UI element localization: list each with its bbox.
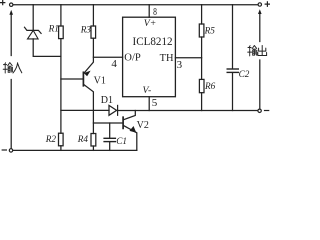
svg-text:C2: C2 bbox=[239, 69, 250, 79]
svg-text:4: 4 bbox=[111, 58, 117, 70]
svg-text:V2: V2 bbox=[137, 120, 149, 131]
svg-text:R6: R6 bbox=[204, 81, 216, 91]
svg-text:O/P: O/P bbox=[124, 53, 141, 64]
svg-text:V1: V1 bbox=[94, 76, 106, 87]
svg-text:ICL8212: ICL8212 bbox=[133, 36, 173, 48]
svg-text:V-: V- bbox=[143, 85, 152, 96]
svg-text:R5: R5 bbox=[204, 26, 216, 36]
svg-text:8: 8 bbox=[153, 6, 157, 18]
svg-text:V+: V+ bbox=[144, 18, 157, 29]
svg-text:5: 5 bbox=[152, 97, 158, 109]
svg-text:R2: R2 bbox=[45, 134, 57, 144]
svg-text:3: 3 bbox=[177, 59, 183, 71]
svg-text:R1: R1 bbox=[48, 24, 59, 34]
svg-text:D1: D1 bbox=[101, 95, 113, 106]
svg-text:C1: C1 bbox=[116, 136, 127, 146]
svg-text:TH: TH bbox=[160, 53, 174, 64]
svg-text:R3: R3 bbox=[80, 25, 92, 35]
svg-text:R4: R4 bbox=[77, 134, 89, 144]
